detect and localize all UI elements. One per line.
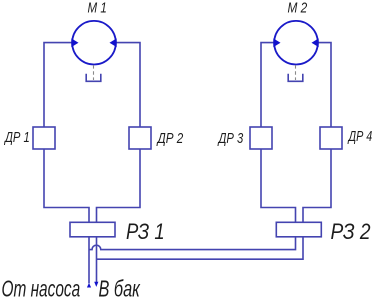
svg-text:От насоса: От насоса bbox=[2, 276, 81, 300]
svg-text:ДР 2: ДР 2 bbox=[156, 130, 184, 147]
svg-text:ДР 1: ДР 1 bbox=[3, 128, 29, 145]
svg-text:М 1: М 1 bbox=[88, 0, 107, 16]
svg-text:ДР 3: ДР 3 bbox=[217, 130, 244, 147]
svg-text:М 2: М 2 bbox=[288, 0, 308, 16]
svg-text:РЗ 1: РЗ 1 bbox=[126, 220, 165, 245]
svg-text:ДР 4: ДР 4 bbox=[347, 127, 372, 144]
svg-text:В бак: В бак bbox=[99, 277, 142, 300]
svg-text:РЗ 2: РЗ 2 bbox=[331, 220, 371, 245]
